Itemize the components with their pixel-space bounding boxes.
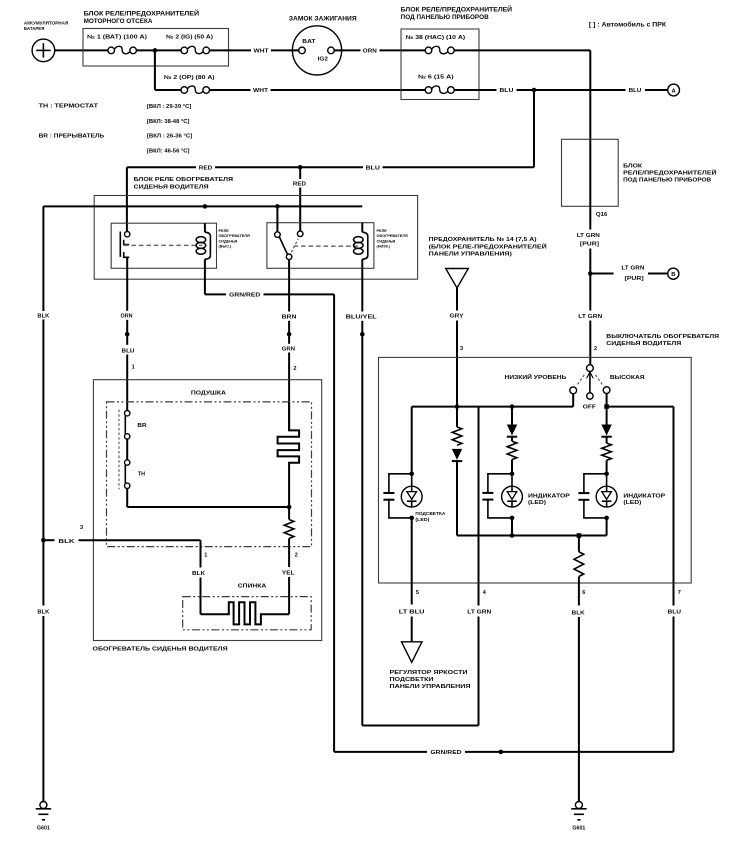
- fuse No2 OP 80A: [164, 75, 215, 93]
- ground G601 left: [36, 802, 51, 832]
- thermostat note: [39, 104, 193, 155]
- connector triangle regulator: [402, 642, 423, 663]
- wire pin4 vertical: [478, 407, 480, 583]
- wire battery to engine fuse box: [55, 49, 108, 51]
- svg-text:ОБОГРЕВАТЕЛЯ: ОБОГРЕВАТЕЛЯ: [219, 234, 250, 238]
- svg-text:(БЛОК РЕЛЕ-ПРЕДОХРАНИТЕЛЕЙ: (БЛОК РЕЛЕ-ПРЕДОХРАНИТЕЛЕЙ: [429, 243, 547, 251]
- wire BLU/YEL from relay2 coil: [346, 268, 378, 725]
- node podsvetka bottom: [409, 516, 414, 521]
- wire right to bus corner: [606, 518, 608, 536]
- svg-text:СИДЕНЬЯ ВОДИТЕЛЯ: СИДЕНЬЯ ВОДИТЕЛЯ: [606, 341, 681, 347]
- svg-text:BLK: BLK: [37, 610, 49, 616]
- diode mid branch: [507, 425, 517, 437]
- connector triangle fuse14: [446, 269, 469, 289]
- svg-text:ORN: ORN: [363, 49, 377, 55]
- svg-text:СИДЕНЬЯ: СИДЕНЬЯ: [377, 239, 396, 243]
- svg-text:(LED): (LED): [415, 517, 430, 522]
- wire GRN/RED from relay1 coil: [205, 268, 334, 752]
- svg-text:РЕГУЛЯТОР ЯРКОСТИ: РЕГУЛЯТОР ЯРКОСТИ: [390, 670, 468, 676]
- wire ORN BLU to cushion pin1: [121, 257, 135, 410]
- wire spinka pin2 YEL: [282, 547, 298, 615]
- svg-text:(LED): (LED): [623, 500, 641, 506]
- svg-text:(НИЗК.): (НИЗК.): [377, 245, 391, 249]
- diode pin3 branch: [452, 449, 462, 461]
- svg-text:СПИНКА: СПИНКА: [238, 583, 267, 589]
- svg-text:GRY: GRY: [450, 314, 464, 320]
- svg-text:IG2: IG2: [318, 56, 328, 62]
- vertical junction to OP fuse row: [155, 50, 181, 90]
- svg-text:LT GRN: LT GRN: [467, 610, 491, 616]
- svg-text:YEL: YEL: [282, 571, 295, 577]
- svg-text:ORN: ORN: [121, 313, 133, 319]
- svg-text:BLU: BLU: [366, 166, 380, 172]
- wire BLK main left: [37, 206, 49, 801]
- node rail-mid branch: [510, 404, 515, 409]
- wire mid to bus: [511, 518, 513, 536]
- wire BR to TH: [126, 439, 128, 460]
- svg-text:(LED): (LED): [528, 500, 546, 506]
- switch wiper arrow: [587, 372, 594, 393]
- wire RED corner down to relay1: [126, 167, 128, 231]
- svg-text:TH: TH: [138, 471, 145, 477]
- fuse No2 IG 50A: [166, 34, 213, 53]
- diode right branch: [601, 425, 611, 437]
- svg-text:№ 2 (IG) (50 А): № 2 (IG) (50 А): [166, 34, 213, 40]
- wire pin6 BLK to ground: [572, 583, 586, 802]
- svg-text:[ВКЛ: 46-56 °С]: [ВКЛ: 46-56 °С]: [147, 149, 190, 155]
- node GRN/RED splice: [499, 750, 504, 755]
- wire GRN/RED bottom run: [334, 750, 673, 756]
- svg-text:5: 5: [416, 590, 419, 596]
- ground G601 right: [571, 802, 586, 832]
- svg-text:СИДЕНЬЯ: СИДЕНЬЯ: [219, 239, 238, 243]
- svg-text:GRN/RED: GRN/RED: [229, 293, 260, 299]
- wire fuse6 right BLU: [454, 88, 534, 94]
- wire pin5 LT BLU: [399, 518, 425, 642]
- svg-text:МОТОРНОГО ОТСЕКА: МОТОРНОГО ОТСЕКА: [84, 19, 154, 25]
- svg-text:BLU: BLU: [122, 348, 135, 354]
- fuse No14 note: [429, 237, 547, 258]
- svg-text:БЛОК РЕЛЕ/ПРЕДОХРАНИТЕЛЕЙ: БЛОК РЕЛЕ/ПРЕДОХРАНИТЕЛЕЙ: [401, 6, 512, 14]
- wire podsvetka branch: [411, 407, 413, 474]
- relay U2 contacts: [275, 206, 303, 259]
- seat heater relay box: [94, 177, 417, 279]
- wire pin3 branch down: [457, 407, 512, 536]
- relay U1 contact: [120, 232, 130, 258]
- wire cushion resistor leads: [288, 507, 290, 547]
- svg-text:ПОДСВЕТКА: ПОДСВЕТКА: [415, 511, 445, 516]
- svg-text:(ВЫС.): (ВЫС.): [219, 245, 233, 249]
- resistor cushion: [284, 520, 294, 539]
- wire Q16 down LT GRN PUR: [577, 206, 600, 273]
- LED indicator mid: [502, 474, 571, 507]
- cushion dash-dot box: [107, 390, 312, 546]
- wire fuse38 right to corner: [454, 49, 590, 51]
- switch contact low: [505, 373, 577, 394]
- svg-text:LT GRN: LT GRN: [577, 233, 600, 239]
- svg-text:2: 2: [295, 553, 298, 559]
- svg-text:РЕЛЕ: РЕЛЕ: [377, 229, 388, 233]
- node BRN-GRN splice: [287, 332, 292, 337]
- svg-text:G601: G601: [37, 826, 50, 832]
- svg-text:[PUR]: [PUR]: [580, 242, 599, 248]
- wire row3 RED BLU: [127, 90, 534, 172]
- node LT GRN junction to B: [588, 271, 593, 276]
- svg-text:GRN: GRN: [282, 346, 295, 352]
- svg-text:BLK: BLK: [58, 539, 74, 545]
- node junction fuse1-fuse2: [153, 48, 158, 53]
- switch contact off: [583, 393, 597, 411]
- node high junction square: [604, 404, 609, 409]
- wire ground bus: [43, 205, 362, 207]
- capacitor podsvetka: [383, 474, 411, 518]
- connector B: [668, 268, 679, 279]
- wire RED down to relay2 contact: [293, 167, 306, 231]
- wire BLU up to switch pin7: [668, 583, 682, 752]
- wire GRY to switch pin3: [450, 288, 464, 407]
- wire right branch: [606, 407, 608, 474]
- wire fuse2 to ignition WHT: [210, 49, 299, 55]
- wire high contact down: [606, 394, 608, 407]
- switch position dashes: [577, 375, 603, 386]
- svg-text:Q16: Q16: [596, 212, 608, 218]
- svg-text:ПОДУШКА: ПОДУШКА: [191, 390, 227, 396]
- svg-text:LT BLU: LT BLU: [399, 610, 425, 616]
- svg-text:BAT: BAT: [302, 39, 316, 45]
- svg-text:BLK: BLK: [192, 571, 205, 577]
- fuse No6 15A: [418, 74, 454, 93]
- node right LED bottom: [604, 516, 609, 521]
- breaker BR: [119, 410, 147, 490]
- svg-text:БЛОК РЕЛЕ ОБОГРЕВАТЕЛЯ: БЛОК РЕЛЕ ОБОГРЕВАТЕЛЯ: [134, 177, 233, 183]
- backrest dash-dot box: [183, 583, 312, 629]
- node bus to relay1 coil: [203, 204, 208, 209]
- svg-text:ВЫКЛЮЧАТЕЛЬ ОБОГРЕВАТЕЛЯ: ВЫКЛЮЧАТЕЛЬ ОБОГРЕВАТЕЛЯ: [606, 334, 719, 340]
- svg-text:OFF: OFF: [583, 405, 597, 411]
- node rail-pin3: [455, 404, 460, 409]
- svg-text:3: 3: [460, 346, 463, 352]
- relay U1 link: [124, 244, 203, 246]
- svg-text:ИНДИКАТОР: ИНДИКАТОР: [623, 493, 665, 499]
- wire LT GRN to switch pin2: [578, 274, 602, 365]
- svg-text:ПОД ПАНЕЛЬЮ ПРИБОРОВ: ПОД ПАНЕЛЬЮ ПРИБОРОВ: [401, 15, 490, 21]
- svg-text:РЕЛЕ/ПРЕДОХРАНИТЕЛЕЙ: РЕЛЕ/ПРЕДОХРАНИТЕЛЕЙ: [623, 169, 717, 177]
- node right LED top: [604, 472, 609, 477]
- underdash fuse box: [401, 6, 512, 100]
- svg-text:[PUR]: [PUR]: [625, 276, 644, 282]
- svg-text:LT GRN: LT GRN: [578, 314, 602, 320]
- switch rotary common: [587, 365, 594, 372]
- capacitor mid: [482, 474, 512, 518]
- resistor right branch: [602, 443, 612, 460]
- node BLU junction: [532, 88, 537, 93]
- wire high to pin7 corner: [607, 407, 674, 583]
- svg-text:БЛОК РЕЛЕ/ПРЕДОХРАНИТЕЛЕЙ: БЛОК РЕЛЕ/ПРЕДОХРАНИТЕЛЕЙ: [84, 9, 200, 17]
- wire mid branch: [511, 407, 513, 474]
- svg-text:1: 1: [204, 553, 207, 559]
- svg-text:РЕЛЕ: РЕЛЕ: [219, 229, 230, 233]
- wire rail y406: [412, 406, 574, 408]
- LED podsvetka: [401, 474, 445, 522]
- svg-text:СИДЕНЬЯ ВОДИТЕЛЯ: СИДЕНЬЯ ВОДИТЕЛЯ: [134, 184, 209, 190]
- svg-text:№ 1 (ВАТ) (100 А): № 1 (ВАТ) (100 А): [87, 34, 147, 40]
- svg-text:№ 2 (ОР) (80 А): № 2 (ОР) (80 А): [164, 75, 215, 81]
- resistor pin6: [574, 552, 584, 577]
- svg-text:LT GRN: LT GRN: [621, 265, 644, 271]
- wire TH down and right: [127, 489, 289, 508]
- svg-text:№ 38 (НАС) (10 А): № 38 (НАС) (10 А): [406, 35, 466, 41]
- svg-text:6: 6: [582, 590, 585, 596]
- svg-text:ОБОГРЕВАТЕЛЯ: ОБОГРЕВАТЕЛЯ: [377, 234, 408, 238]
- wire corner down to Q16: [589, 50, 591, 139]
- node bus-mid: [510, 533, 515, 538]
- node podsvetka top: [409, 472, 414, 477]
- svg-text:[ВКЛ : 29-39 °С]: [ВКЛ : 29-39 °С]: [147, 104, 192, 110]
- svg-text:RED: RED: [293, 181, 306, 187]
- svg-text:2: 2: [594, 346, 597, 352]
- wire pin3 BLK into unit: [43, 525, 200, 545]
- node BLU/YEL splice: [360, 332, 365, 337]
- relay U1 high: [111, 223, 250, 268]
- wire fuse1 to junction: [136, 49, 155, 51]
- node mid LED top: [510, 472, 515, 477]
- regulator note: [390, 670, 471, 690]
- svg-text:BR: BR: [137, 423, 146, 429]
- wire BLU to connector A: [534, 88, 668, 94]
- wire LT GRN return to switch pin4: [362, 583, 491, 726]
- svg-text:[ВКЛ: 38-48 °С]: [ВКЛ: 38-48 °С]: [147, 119, 190, 125]
- svg-text:BLU: BLU: [668, 610, 682, 616]
- svg-text:WHT: WHT: [254, 49, 270, 55]
- svg-text:ЗАМОК ЗАЖИГАНИЯ: ЗАМОК ЗАЖИГАНИЯ: [289, 17, 357, 23]
- fuse No1 BAT 100A: [87, 34, 147, 53]
- svg-text:RED: RED: [199, 166, 212, 172]
- svg-text:BLU/YEL: BLU/YEL: [346, 315, 378, 321]
- switch contact high: [603, 375, 644, 394]
- wire low contact to rail: [572, 394, 574, 407]
- wire bus y535: [457, 535, 607, 537]
- svg-text:ПАНЕЛИ УПРАВЛЕНИЯ): ПАНЕЛИ УПРАВЛЕНИЯ): [429, 252, 512, 258]
- node mid LED bottom: [510, 516, 515, 521]
- svg-text:ВЫСОКАЯ: ВЫСОКАЯ: [610, 375, 645, 381]
- resistor mid branch: [507, 441, 517, 459]
- svg-text:GRN/RED: GRN/RED: [430, 750, 461, 756]
- svg-text:BLU: BLU: [499, 88, 513, 94]
- engine fuse box: [83, 9, 229, 66]
- svg-text:ПОДСВЕТКИ: ПОДСВЕТКИ: [390, 677, 434, 683]
- svg-text:BLK: BLK: [37, 313, 49, 319]
- node bus-resistor square: [577, 533, 582, 538]
- svg-text:BLK: BLK: [572, 610, 585, 616]
- seat heater unit box: [93, 380, 322, 653]
- svg-text:ПОД ПАНЕЛЬЮ ПРИБОРОВ: ПОД ПАНЕЛЬЮ ПРИБОРОВ: [623, 178, 711, 184]
- svg-text:BR : ПРЕРЫВАТЕЛЬ: BR : ПРЕРЫВАТЕЛЬ: [39, 134, 105, 140]
- wire OP fuse WHT row2: [210, 88, 426, 94]
- wire BRN GRN to cushion pin2: [282, 260, 297, 431]
- svg-text:2: 2: [293, 366, 296, 372]
- resistor pin3 branch: [452, 427, 462, 445]
- svg-text:TH : ТЕРМОСТАТ: TH : ТЕРМОСТАТ: [39, 104, 99, 110]
- cushion heater element: [278, 402, 300, 507]
- connector A: [668, 84, 680, 96]
- backrest heater element: [201, 602, 290, 624]
- svg-text:1: 1: [132, 365, 135, 371]
- svg-text:[ВКЛ : 26-36 °С]: [ВКЛ : 26-36 °С]: [147, 134, 193, 140]
- svg-text:BLU: BLU: [629, 88, 642, 94]
- svg-text:[ ] : Автомобиль с ПРК: [ ] : Автомобиль с ПРК: [589, 21, 667, 28]
- svg-text:БАТАРЕЯ: БАТАРЕЯ: [24, 26, 45, 32]
- wire IG2 to underdash box ORN: [334, 49, 425, 55]
- wire junction to fuse2: [155, 49, 181, 51]
- wire spinka pin1 BLK: [192, 540, 207, 614]
- seat heater switch box: [379, 334, 720, 583]
- relay U2 link: [294, 245, 358, 247]
- battery: [24, 20, 69, 61]
- svg-text:НИЗКИЙ УРОВЕНЬ: НИЗКИЙ УРОВЕНЬ: [505, 373, 567, 381]
- capacitor right: [578, 474, 606, 518]
- ignition switch: [289, 17, 357, 75]
- fuse No38 HAC 10A: [406, 35, 466, 54]
- node cushion junction: [287, 505, 292, 510]
- svg-text:ПРЕДОХРАНИТЕЛЬ № 14 (7,5 А): ПРЕДОХРАНИТЕЛЬ № 14 (7,5 А): [429, 237, 537, 243]
- svg-text:ОБОГРЕВАТЕЛЬ СИДЕНЬЯ ВОДИТЕЛЯ: ОБОГРЕВАТЕЛЬ СИДЕНЬЯ ВОДИТЕЛЯ: [93, 647, 228, 653]
- wire square to resistor: [578, 536, 580, 584]
- relay U2 coil: [354, 223, 368, 269]
- LED indicator right: [596, 474, 666, 507]
- svg-text:3: 3: [80, 525, 83, 531]
- note PRK: [589, 21, 667, 28]
- svg-text:WHT: WHT: [253, 88, 269, 94]
- svg-text:G601: G601: [572, 826, 585, 832]
- svg-text:ИНДИКАТОР: ИНДИКАТОР: [528, 493, 570, 499]
- node BLK to pin3: [41, 538, 46, 543]
- svg-text:АККУМУЛЯТОРНАЯ: АККУМУЛЯТОРНАЯ: [24, 20, 69, 26]
- svg-text:B: B: [671, 272, 675, 278]
- svg-text:№ 6 (15 А): № 6 (15 А): [418, 74, 454, 80]
- thermostat TH: [125, 460, 146, 489]
- node RED junction row3: [298, 165, 303, 170]
- node ORN-BLU splice: [125, 332, 130, 337]
- svg-text:ПАНЕЛИ УПРАВЛЕНИЯ: ПАНЕЛИ УПРАВЛЕНИЯ: [390, 684, 471, 690]
- relay U2 low: [267, 223, 408, 269]
- svg-text:BRN: BRN: [282, 315, 297, 321]
- node bus to relay2 contact: [275, 204, 280, 209]
- svg-text:7: 7: [678, 590, 681, 596]
- svg-text:БЛОК: БЛОК: [623, 164, 643, 170]
- relay U1 coil: [196, 223, 210, 268]
- wire to connector B: [590, 265, 667, 282]
- relay box Q16: [562, 139, 717, 218]
